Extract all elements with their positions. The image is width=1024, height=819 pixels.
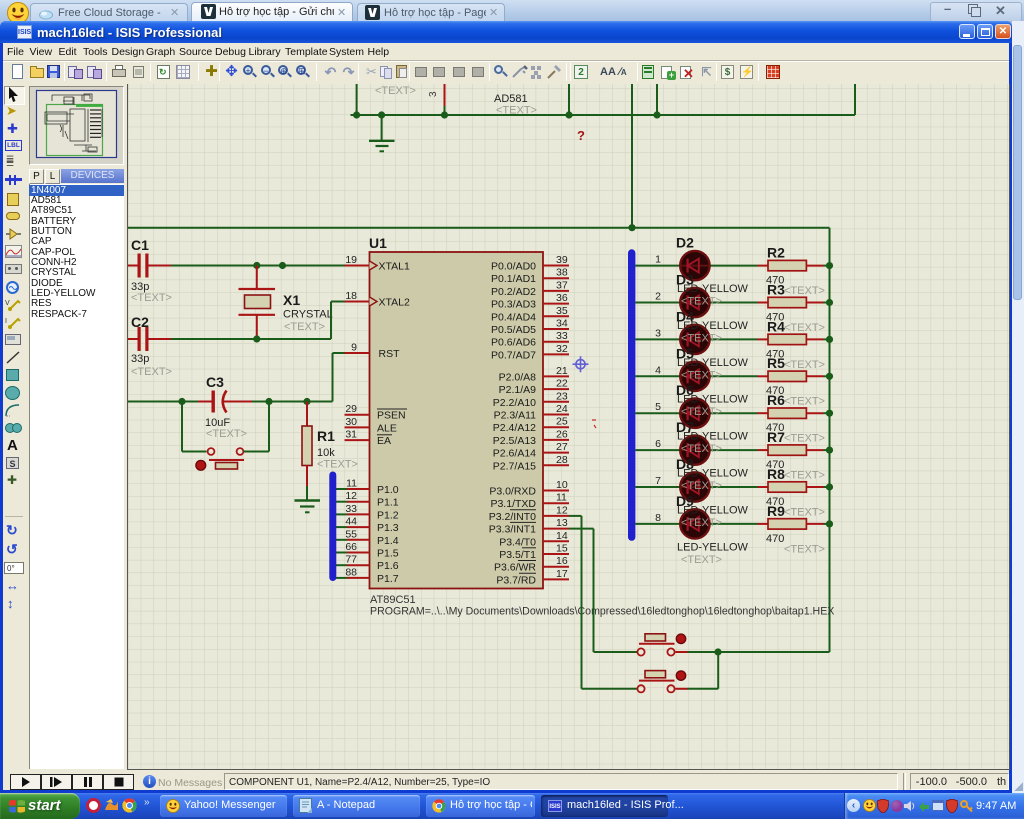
svg-text:<TEXT>: <TEXT> bbox=[284, 321, 325, 333]
svg-text:R8: R8 bbox=[767, 466, 785, 482]
svg-text:PSEN: PSEN bbox=[377, 410, 406, 422]
svg-text:D7: D7 bbox=[676, 419, 694, 435]
svg-text:R4: R4 bbox=[767, 318, 785, 334]
svg-text:ALE: ALE bbox=[377, 422, 397, 434]
svg-text:<TEXT>: <TEXT> bbox=[681, 369, 722, 381]
svg-text:CRYSTAL: CRYSTAL bbox=[283, 309, 333, 321]
svg-text:38: 38 bbox=[556, 267, 568, 279]
svg-text:I: I bbox=[5, 318, 7, 325]
svg-text:23: 23 bbox=[556, 390, 568, 402]
svg-text:7: 7 bbox=[655, 475, 661, 487]
svg-text:?: ? bbox=[577, 128, 585, 143]
svg-text:39: 39 bbox=[556, 254, 568, 266]
svg-text:AT89C51: AT89C51 bbox=[370, 594, 416, 606]
svg-text:77: 77 bbox=[345, 554, 357, 566]
svg-text:55: 55 bbox=[345, 528, 357, 540]
svg-text:12: 12 bbox=[556, 504, 568, 516]
svg-text:28: 28 bbox=[556, 454, 568, 466]
svg-text:21: 21 bbox=[556, 365, 568, 377]
svg-text:22: 22 bbox=[556, 378, 568, 390]
svg-text:8: 8 bbox=[655, 512, 661, 524]
svg-text:<TEXT>: <TEXT> bbox=[681, 443, 722, 455]
svg-text:<TEXT>: <TEXT> bbox=[375, 85, 416, 97]
svg-text:3: 3 bbox=[655, 327, 661, 339]
svg-text:D4: D4 bbox=[676, 308, 694, 324]
svg-text:12: 12 bbox=[345, 490, 357, 502]
svg-text:14: 14 bbox=[556, 530, 568, 542]
svg-text:27: 27 bbox=[556, 441, 568, 453]
svg-text:P0.4/AD4: P0.4/AD4 bbox=[491, 311, 536, 323]
svg-text:P3.3/INT1: P3.3/INT1 bbox=[489, 524, 536, 536]
svg-text:470: 470 bbox=[766, 533, 784, 545]
svg-text:U1: U1 bbox=[369, 235, 387, 251]
svg-text:<TEXT>: <TEXT> bbox=[784, 396, 825, 408]
svg-text:<TEXT>: <TEXT> bbox=[681, 480, 722, 492]
svg-text:P3.5/T1: P3.5/T1 bbox=[499, 549, 536, 561]
svg-text:32: 32 bbox=[556, 343, 568, 355]
svg-text:P3.7/RD: P3.7/RD bbox=[496, 574, 536, 586]
svg-text:D9: D9 bbox=[676, 493, 694, 509]
svg-text:<TEXT>: <TEXT> bbox=[131, 366, 172, 378]
svg-text:33: 33 bbox=[345, 503, 357, 515]
svg-text:P2.0/A8: P2.0/A8 bbox=[499, 371, 537, 383]
svg-text:34: 34 bbox=[556, 318, 568, 330]
svg-text:LED-YELLOW: LED-YELLOW bbox=[677, 541, 749, 553]
svg-text:29: 29 bbox=[345, 403, 357, 415]
svg-text:R9: R9 bbox=[767, 503, 785, 519]
svg-text:C3: C3 bbox=[206, 374, 224, 390]
svg-text:R6: R6 bbox=[767, 392, 785, 408]
svg-text:P0.5/AD5: P0.5/AD5 bbox=[491, 324, 536, 336]
svg-text:R7: R7 bbox=[767, 429, 785, 445]
svg-text:P2.2/A10: P2.2/A10 bbox=[493, 397, 536, 409]
svg-text:P0.1/AD1: P0.1/AD1 bbox=[491, 273, 536, 285]
svg-text:P3.6/WR: P3.6/WR bbox=[494, 562, 536, 574]
svg-text:5: 5 bbox=[655, 401, 661, 413]
svg-text:R5: R5 bbox=[767, 355, 785, 371]
svg-text:11: 11 bbox=[556, 492, 567, 504]
svg-text:<TEXT>: <TEXT> bbox=[206, 428, 247, 440]
svg-text:<TEXT>: <TEXT> bbox=[681, 332, 722, 344]
svg-text:P1.5: P1.5 bbox=[377, 548, 399, 560]
svg-text:11: 11 bbox=[346, 478, 357, 490]
svg-text:33: 33 bbox=[556, 330, 568, 342]
svg-text:D5: D5 bbox=[676, 345, 694, 361]
svg-text:9: 9 bbox=[351, 342, 357, 354]
svg-text:V: V bbox=[5, 300, 10, 307]
svg-text:88: 88 bbox=[345, 566, 357, 578]
svg-text:R3: R3 bbox=[767, 281, 785, 297]
svg-text:P1.1: P1.1 bbox=[377, 497, 399, 509]
svg-text:<TEXT>: <TEXT> bbox=[784, 322, 825, 334]
svg-text:10k: 10k bbox=[317, 447, 335, 459]
svg-text:P0.2/AD2: P0.2/AD2 bbox=[491, 286, 536, 298]
svg-text:PROGRAM=..\..\My Documents\Dow: PROGRAM=..\..\My Documents\Downloads\Com… bbox=[370, 606, 834, 618]
svg-text:<TEXT>: <TEXT> bbox=[784, 359, 825, 371]
svg-text:P0.7/AD7: P0.7/AD7 bbox=[491, 349, 536, 361]
svg-text:37: 37 bbox=[556, 279, 568, 291]
svg-text:<TEXT>: <TEXT> bbox=[784, 433, 825, 445]
svg-text:P2.3/A11: P2.3/A11 bbox=[494, 410, 537, 422]
svg-text:R1: R1 bbox=[317, 428, 335, 444]
svg-text:<TEXT>: <TEXT> bbox=[496, 105, 537, 117]
svg-text:P2.1/A9: P2.1/A9 bbox=[499, 384, 537, 396]
svg-text:XTAL1: XTAL1 bbox=[379, 261, 410, 273]
svg-text:R2: R2 bbox=[767, 245, 785, 261]
svg-text:P0.3/AD3: P0.3/AD3 bbox=[491, 299, 536, 311]
svg-text:<TEXT>: <TEXT> bbox=[784, 543, 825, 555]
svg-text:P2.7/A15: P2.7/A15 bbox=[493, 460, 536, 472]
svg-text:16: 16 bbox=[556, 555, 568, 567]
svg-text:<TEXT>: <TEXT> bbox=[784, 470, 825, 482]
svg-text:<TEXT>: <TEXT> bbox=[681, 554, 722, 566]
svg-text:<TEXT>: <TEXT> bbox=[681, 517, 722, 529]
svg-text:D2: D2 bbox=[676, 235, 694, 251]
svg-text:26: 26 bbox=[556, 428, 568, 440]
svg-text:P3.2/INT0: P3.2/INT0 bbox=[489, 511, 536, 523]
svg-text:4: 4 bbox=[655, 364, 661, 376]
svg-text:25: 25 bbox=[556, 416, 568, 428]
svg-text:1: 1 bbox=[655, 254, 661, 266]
svg-text:24: 24 bbox=[556, 403, 568, 415]
svg-text:17: 17 bbox=[556, 568, 568, 580]
svg-text:RST: RST bbox=[379, 348, 401, 360]
svg-text:<TEXT>: <TEXT> bbox=[784, 285, 825, 297]
svg-text:P2.6/A14: P2.6/A14 bbox=[493, 448, 536, 460]
svg-text:X1: X1 bbox=[283, 292, 300, 308]
svg-text:P2.4/A12: P2.4/A12 bbox=[493, 422, 536, 434]
svg-text:33p: 33p bbox=[131, 353, 149, 365]
svg-text:C1: C1 bbox=[131, 237, 149, 253]
svg-text:<TEXT>: <TEXT> bbox=[317, 459, 358, 471]
svg-text:<TEXT>: <TEXT> bbox=[784, 506, 825, 518]
svg-text:D3: D3 bbox=[676, 272, 694, 288]
svg-text:10: 10 bbox=[556, 479, 568, 491]
svg-text:44: 44 bbox=[345, 516, 357, 528]
svg-text:P3.1/TXD: P3.1/TXD bbox=[490, 498, 536, 510]
svg-text:18: 18 bbox=[345, 290, 357, 302]
svg-text:3: 3 bbox=[428, 91, 439, 97]
svg-text:XTAL2: XTAL2 bbox=[379, 297, 410, 309]
svg-text:D6: D6 bbox=[676, 382, 694, 398]
svg-text:P0.6/AD6: P0.6/AD6 bbox=[491, 337, 536, 349]
svg-text:66: 66 bbox=[345, 541, 357, 553]
svg-text:P1.3: P1.3 bbox=[377, 522, 399, 534]
svg-text:P1.6: P1.6 bbox=[377, 560, 399, 572]
svg-text:<TEXT>: <TEXT> bbox=[681, 296, 722, 308]
svg-text:15: 15 bbox=[556, 543, 568, 555]
svg-text:P2.5/A13: P2.5/A13 bbox=[493, 435, 536, 447]
svg-text:19: 19 bbox=[345, 254, 357, 266]
svg-text:P0.0/AD0: P0.0/AD0 bbox=[491, 261, 536, 273]
svg-text:35: 35 bbox=[556, 305, 568, 317]
svg-text:P1.0: P1.0 bbox=[377, 484, 399, 496]
svg-text:6: 6 bbox=[655, 438, 661, 450]
svg-text:EA: EA bbox=[377, 435, 391, 447]
svg-text:<TEXT>: <TEXT> bbox=[131, 292, 172, 304]
svg-text:30: 30 bbox=[345, 416, 357, 428]
svg-text:2: 2 bbox=[655, 291, 661, 303]
svg-text:13: 13 bbox=[556, 517, 568, 529]
svg-text:AD581: AD581 bbox=[494, 93, 528, 105]
svg-text:P3.4/T0: P3.4/T0 bbox=[499, 536, 536, 548]
svg-text:31: 31 bbox=[345, 429, 357, 441]
svg-text:P1.2: P1.2 bbox=[377, 509, 399, 521]
svg-text:D8: D8 bbox=[676, 456, 694, 472]
svg-text:P1.4: P1.4 bbox=[377, 535, 399, 547]
svg-text:<TEXT>: <TEXT> bbox=[681, 406, 722, 418]
svg-text:P3.0/RXD: P3.0/RXD bbox=[489, 486, 536, 498]
svg-text:P1.7: P1.7 bbox=[377, 573, 399, 585]
svg-text:36: 36 bbox=[556, 292, 568, 304]
